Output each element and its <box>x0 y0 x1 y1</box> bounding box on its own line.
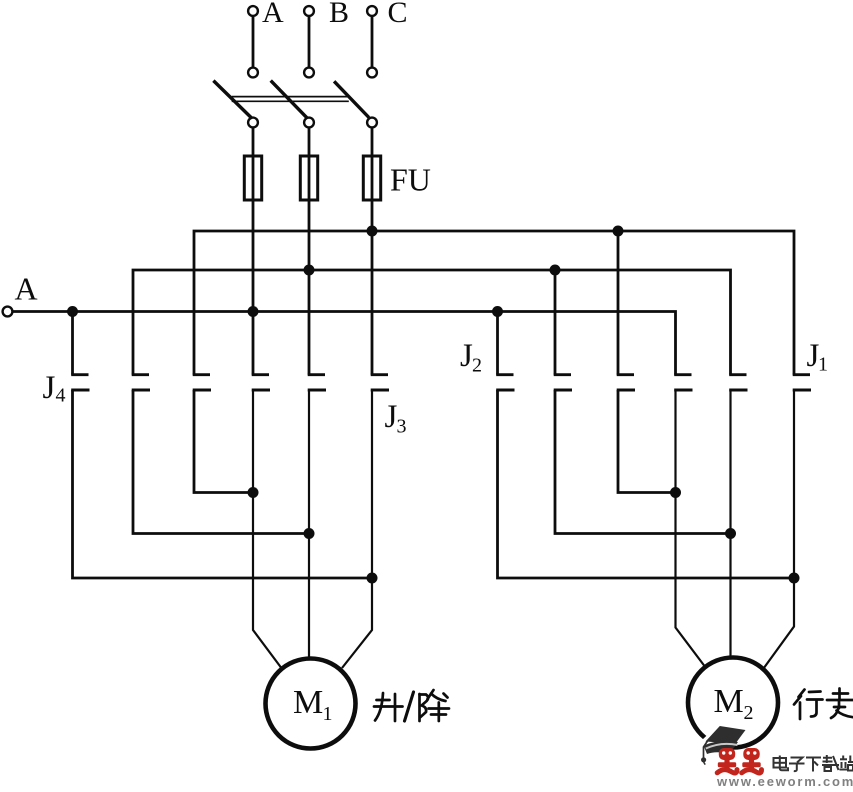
svg-text:4: 4 <box>56 385 66 407</box>
svg-text:A: A <box>15 271 38 307</box>
svg-text:M: M <box>714 683 744 720</box>
contactor contact R6 (J1) <box>793 375 811 390</box>
wire phase A fuse to contact <box>252 200 255 375</box>
wire switch pole A to fuse <box>252 127 255 157</box>
wire terminal C drop <box>371 16 374 67</box>
wire branch to contact R3 <box>617 231 620 375</box>
wire R3 to lead-U node <box>618 390 676 493</box>
wire R2 to lead-V node <box>555 390 731 534</box>
knife switch QS pole B <box>271 68 314 128</box>
wire branch to contact R2 <box>554 270 557 375</box>
knife switch QS pole C <box>334 68 377 128</box>
fuse FU pole B <box>300 156 317 200</box>
junction bus1 / phase C <box>367 226 378 237</box>
svg-text:3: 3 <box>397 416 407 438</box>
junction M2 lead V <box>725 528 736 539</box>
contactor contact R3 (J2) <box>617 375 635 390</box>
watermark chong (bug) glyph <box>717 748 737 773</box>
label J3 <box>385 399 407 438</box>
junction bus3 / phase A <box>248 306 259 317</box>
wire bus 3 (phase A net) <box>12 312 675 375</box>
fuse FU pole C <box>363 156 380 200</box>
contactor contact L1 (J4) <box>71 375 89 390</box>
label J1 <box>807 338 829 376</box>
motor M1 <box>266 659 356 749</box>
svg-text:M: M <box>293 684 323 721</box>
junction bus3 / branch R1 <box>492 306 503 317</box>
label M1 <box>293 684 333 725</box>
wire M2 lead W <box>764 390 795 669</box>
motor M2 <box>688 658 778 748</box>
contactor contact L6 (J3) <box>371 375 389 390</box>
wire phase B fuse to contact <box>308 200 311 375</box>
wire R1 to lead-W node <box>498 390 795 578</box>
svg-text:www.eeworm.com: www.eeworm.com <box>716 774 853 787</box>
contactor contact R4 (J1) <box>674 375 692 390</box>
junction bus2 / phase B <box>304 265 315 276</box>
contactor contact R5 (J1) <box>729 375 747 390</box>
wire bus 1 (phase C net) <box>194 231 794 375</box>
junction M2 lead U <box>670 487 681 498</box>
label J2 <box>460 338 482 377</box>
contactor contact L4 (J3) <box>252 375 270 390</box>
junction M1 lead W <box>367 573 378 584</box>
wire switch pole C to fuse <box>371 127 374 157</box>
junction M1 lead V <box>304 528 315 539</box>
phase terminal A <box>248 6 258 16</box>
contactor contact L5 (J3) <box>308 375 326 390</box>
junction bus1 / branch R3 <box>613 226 624 237</box>
wire M1 lead V <box>308 390 310 659</box>
wire bus 2 (phase B net) <box>133 270 731 375</box>
phase terminal B <box>304 6 314 16</box>
svg-text:J: J <box>43 370 56 406</box>
svg-text:B: B <box>329 0 349 29</box>
wire L3 to phase-A node <box>194 390 253 493</box>
svg-text:1: 1 <box>323 703 333 725</box>
phase terminal C <box>367 6 377 16</box>
junction bus2 / branch R2 <box>550 265 561 276</box>
wire switch pole B to fuse <box>308 127 311 157</box>
watermark graduation cap <box>701 724 748 765</box>
wire terminal B drop <box>308 16 311 67</box>
wire branch to contact L1 <box>71 312 74 375</box>
contactor contact R2 (J2) <box>554 375 572 390</box>
svg-text:A: A <box>262 0 284 29</box>
wire L1 to phase-C node <box>73 390 373 578</box>
wire M1 lead W <box>342 390 372 668</box>
svg-text:2: 2 <box>744 702 754 724</box>
contactor contact L2 (J4) <box>132 375 150 390</box>
svg-text:FU: FU <box>390 162 431 198</box>
wire M1 lead U <box>253 390 281 668</box>
knife switch linkage bar <box>232 97 349 102</box>
svg-text:C: C <box>388 0 408 29</box>
terminal A (phase A tap) <box>3 307 13 317</box>
wire M2 lead V <box>729 390 731 658</box>
label sheng/jiang (hoist) <box>374 690 449 721</box>
watermark chong (bug) glyph <box>742 748 762 773</box>
label J4 <box>43 370 66 407</box>
wire phase C fuse to contact <box>371 200 374 375</box>
watermark site name (CJK small) <box>774 755 853 772</box>
contactor contact L3 (J4) <box>193 375 211 390</box>
junction M1 lead U <box>248 487 259 498</box>
contactor contact R1 (J2) <box>496 375 514 390</box>
wire M2 lead U <box>676 390 705 666</box>
junction bus3 / branch L1 <box>67 306 78 317</box>
fuse FU pole A <box>244 156 261 200</box>
junction M2 lead W <box>789 573 800 584</box>
wire terminal A drop <box>252 16 255 67</box>
wire L2 to phase-B node <box>133 390 309 534</box>
label M2 <box>714 683 754 724</box>
knife switch QS pole A <box>213 68 258 128</box>
svg-text:2: 2 <box>472 355 482 377</box>
svg-text:1: 1 <box>818 354 828 376</box>
label xingzou (travel) <box>794 689 853 720</box>
wire branch to contact R1 <box>496 312 499 375</box>
